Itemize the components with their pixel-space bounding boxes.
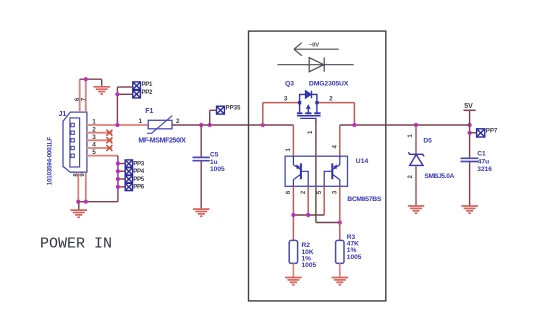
svg-text:PP1: PP1 [142, 81, 154, 88]
svg-text:47u: 47u [478, 159, 489, 166]
svg-text:1005: 1005 [302, 262, 317, 269]
node pin6 tie junction [291, 213, 295, 217]
node D5 junction [414, 123, 418, 127]
ground G2 [78, 202, 80, 210]
no-connect X pin3 [106, 137, 112, 143]
svg-text:DMG2305UX: DMG2305UX [309, 80, 349, 87]
test point PP1 [133, 82, 141, 90]
node 5V junction [468, 123, 472, 127]
wire bottom ground horizontal [78, 201, 118, 203]
svg-text:PP3: PP3 [133, 160, 145, 167]
wire PP35 stub [210, 109, 217, 111]
wire U14 pin1 drop [292, 125, 294, 156]
resistor R2 [289, 240, 297, 263]
wire J1 pin3 [87, 139, 113, 141]
wire PP7 stub [470, 132, 477, 134]
svg-text:MF-MSMF250/X: MF-MSMF250/X [138, 138, 186, 145]
wire PP5 stub [118, 178, 125, 180]
svg-text:1u: 1u [210, 159, 218, 166]
node gate/R3 junction [338, 220, 342, 224]
wire Q3 source vertical [262, 103, 264, 125]
wire pin7 vertical [85, 79, 87, 112]
ground G6 [408, 206, 425, 213]
svg-text:1: 1 [139, 118, 143, 125]
svg-text:J1: J1 [59, 111, 67, 118]
node pin7/gnd junction [84, 77, 88, 81]
test point PP35 [217, 106, 225, 114]
wire U14 pin2 down [307, 186, 309, 215]
node PP35 junction [208, 123, 212, 127]
svg-text:PP4: PP4 [133, 168, 145, 175]
wire Q3 drain vertical [353, 103, 355, 125]
wire pin8 vertical [77, 172, 79, 202]
fuse F1 body [148, 120, 172, 129]
transistor Q3 [300, 91, 317, 113]
node PP6 junction [116, 185, 120, 189]
wire C5 vertical bottom [200, 161, 202, 209]
svg-text:BCM857BS: BCM857BS [347, 196, 382, 203]
svg-text:3: 3 [92, 134, 96, 141]
Q3 gate lead [300, 118, 316, 123]
ground G7 [461, 206, 478, 213]
U14 right PNP [324, 156, 340, 186]
svg-text:D5: D5 [423, 138, 432, 145]
node pin2 tie junction [306, 213, 310, 217]
test point PP2 [133, 90, 141, 98]
test point PP3 [125, 160, 132, 167]
test point PP4 [125, 168, 132, 175]
node PP5 junction [116, 177, 120, 181]
wire main bus right section [340, 124, 470, 126]
wire pin5/PP3-6 vertical [117, 156, 119, 202]
no-connect X pin4 [106, 145, 112, 151]
wire U14 pin3 to R3 [339, 186, 341, 240]
wire U14 pin4 drop [339, 125, 341, 156]
svg-text:4: 4 [92, 142, 96, 149]
wire D5 top [415, 125, 417, 154]
svg-text:5: 5 [92, 149, 96, 156]
svg-text:1005: 1005 [347, 254, 362, 261]
wire 5V vertical [469, 110, 471, 158]
J1 contact pads [71, 123, 74, 157]
power symbol 5V bar [464, 109, 476, 111]
svg-text:PP6: PP6 [133, 184, 145, 191]
svg-text:F1: F1 [145, 108, 153, 115]
node Q3 drain terminal [315, 101, 318, 104]
ground G3 [193, 209, 210, 216]
svg-text:10103594-0001LF: 10103594-0001LF [46, 137, 53, 186]
U14 left PNP [293, 156, 308, 186]
svg-text:POWER IN: POWER IN [40, 236, 112, 253]
wire C5 vertical top [200, 125, 202, 157]
wire PP35 vertical [209, 110, 211, 125]
node PP vertical to main bus [115, 123, 119, 127]
wire J1 pin4 [87, 147, 113, 149]
node PP7 junction [468, 131, 472, 135]
connector J1 inner body [70, 118, 80, 167]
ground G5 [332, 278, 349, 285]
wire gate to R3 horizontal [316, 222, 340, 224]
node PP3 junction [116, 161, 120, 165]
svg-text:2: 2 [176, 118, 180, 125]
wire C1 bottom [469, 162, 471, 206]
ground G1 [94, 87, 111, 94]
svg-text:2: 2 [92, 126, 96, 133]
svg-text:Q3: Q3 [285, 80, 294, 87]
wire Q3 gate vertical [315, 121, 317, 223]
svg-text:PP35: PP35 [226, 105, 242, 112]
svg-text:PP7: PP7 [486, 127, 498, 134]
wire Q3 drain horizontal [317, 102, 354, 104]
wire R2 to ground [292, 263, 294, 277]
Q3 gate bar [297, 115, 321, 117]
test point PP5 [125, 176, 132, 183]
wire PP4 stub [118, 170, 125, 172]
wire main bus fuse to U14 drop [172, 124, 293, 126]
fuse F1 diagonal [147, 116, 172, 134]
wire U14 pin5 down [323, 186, 325, 215]
wire PP1/PP2 vertical [116, 87, 118, 125]
wire PP2 stub [117, 93, 132, 95]
node PP4 junction [116, 169, 120, 173]
dual transistor U14 box [285, 156, 347, 186]
node Q3 source terminal [298, 101, 301, 104]
wire J1 pin5 [87, 155, 118, 157]
annotation box [249, 31, 386, 301]
wire top ground horizontal [80, 78, 102, 80]
node Q3 source junction [261, 123, 265, 127]
wire Q3 source horizontal [263, 102, 300, 104]
svg-text:PP5: PP5 [133, 176, 145, 183]
svg-text:3: 3 [284, 95, 288, 102]
test point PP6 [125, 183, 132, 190]
node PP2 junction [115, 92, 119, 96]
test point PP7 [477, 129, 485, 137]
wire PP6 stub [118, 186, 125, 188]
svg-text:1: 1 [92, 119, 96, 126]
diode D5 zener [408, 152, 424, 165]
annotation body diode [278, 58, 354, 72]
wire top ground vertical stub [101, 79, 103, 86]
svg-text:PP2: PP2 [142, 89, 154, 96]
U14 left PNP emitter arrow [296, 164, 300, 169]
connector J1 outer shell [63, 112, 87, 172]
no-connect X pin2 [106, 130, 112, 136]
wire R3 to ground [339, 263, 341, 277]
wire U14 pin6 to R2 [292, 186, 294, 240]
capacitor C5 [193, 157, 210, 160]
resistor R3 [336, 240, 344, 263]
svg-text:1005: 1005 [210, 166, 225, 173]
svg-text:2: 2 [329, 95, 333, 102]
wire PP1 stub [117, 86, 132, 88]
svg-text:~0V: ~0V [309, 43, 320, 49]
Q3 contact bars [297, 112, 321, 114]
U14 right PNP emitter arrow [333, 164, 337, 169]
svg-text:U14: U14 [356, 158, 369, 165]
Q3 substrate arrow [306, 104, 311, 109]
svg-text:C5: C5 [210, 151, 219, 158]
wire base tie horizontal [293, 214, 324, 216]
wire J1 pin2 [87, 132, 113, 134]
wire PP3 stub [118, 163, 125, 165]
ground G4 [285, 278, 302, 285]
wire pin6 vertical [79, 79, 81, 112]
wire pin9 vertical [85, 172, 87, 202]
annotation arrow [294, 43, 339, 56]
capacitor C1 [461, 158, 479, 161]
node C5 junction [199, 123, 203, 127]
node Q3 drain to bus [352, 123, 356, 127]
node pin9 junction [84, 200, 88, 204]
svg-text:5V: 5V [464, 103, 473, 110]
svg-text:3216: 3216 [477, 166, 492, 173]
svg-text:C1: C1 [477, 150, 486, 157]
wire J1 pin1 to fuse [87, 124, 149, 126]
svg-text:SMBJ5.0A: SMBJ5.0A [424, 173, 454, 180]
node pin8 junction [76, 200, 80, 204]
wire D5 bottom [415, 165, 417, 206]
